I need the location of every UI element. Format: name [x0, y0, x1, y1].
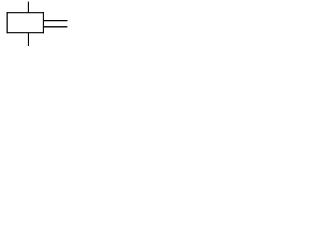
component body U1: top edge [7, 12, 44, 14]
component body U1: right edge [42, 12, 44, 33]
bottom pin (wire) [27, 33, 29, 46]
right lead 1 (wire) [43, 20, 67, 22]
component body U1: left edge [6, 12, 8, 33]
top pin (wire) [27, 2, 29, 13]
right lead 2 (wire) [43, 26, 67, 28]
component body U1: bottom edge [7, 32, 44, 34]
